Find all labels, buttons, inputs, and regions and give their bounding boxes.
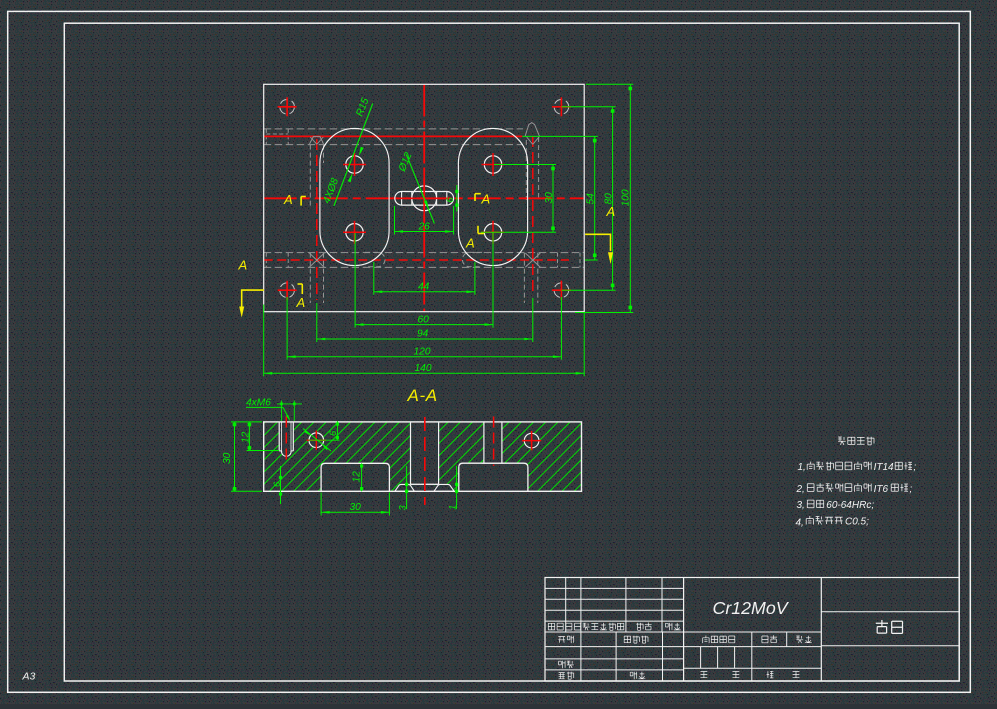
right cavity slot (stadium) bbox=[458, 128, 527, 265]
label shenhe bbox=[559, 661, 574, 668]
top channel plug left bbox=[265, 129, 267, 145]
svg-text:3,: 3, bbox=[797, 500, 805, 511]
svg-text:A3: A3 bbox=[22, 671, 36, 683]
svg-text:26: 26 bbox=[418, 221, 431, 232]
bottom cooling channel hidden line upper bbox=[264, 252, 585, 254]
dim 94 bbox=[316, 303, 318, 342]
divider 2 bbox=[820, 578, 822, 682]
svg-text:A: A bbox=[238, 258, 248, 273]
section red centerline right channel bbox=[493, 417, 495, 467]
sprue slot floor bbox=[411, 483, 439, 485]
dim 1 runner mesa right bbox=[456, 466, 458, 509]
drill point V below right dome bbox=[526, 137, 533, 145]
label shuliang bbox=[762, 635, 777, 643]
label genggai wenjianhao bbox=[583, 623, 624, 630]
center sprue slot obround bbox=[395, 192, 454, 206]
dim 140 bbox=[263, 305, 265, 377]
label gong bbox=[701, 672, 708, 678]
section step bracket right-middle bbox=[475, 193, 481, 195]
svg-text:6: 6 bbox=[272, 481, 282, 487]
channel crossing X right bbox=[525, 253, 540, 267]
dim 3 runner mesa left bbox=[406, 466, 408, 509]
right box rows bbox=[821, 611, 959, 613]
top channel centerline red bbox=[264, 135, 523, 137]
tech requirements title bbox=[838, 437, 874, 445]
label biaoji bbox=[548, 623, 563, 630]
label riqi2 bbox=[630, 672, 645, 679]
row line under marks row bbox=[545, 631, 821, 633]
small squares verticals bbox=[700, 647, 702, 669]
section arrow right bbox=[585, 234, 610, 251]
section: center sprue slot bbox=[411, 422, 439, 484]
section outline bbox=[264, 422, 582, 491]
section red centerline M6 bbox=[285, 417, 287, 462]
svg-text:30: 30 bbox=[544, 192, 555, 204]
side water hole hidden walls left bbox=[309, 145, 311, 208]
svg-text:12: 12 bbox=[351, 471, 362, 483]
section step bracket right-slot bbox=[477, 226, 479, 234]
dim 44 bbox=[373, 262, 375, 295]
row line left empty bbox=[545, 658, 684, 660]
section arrow left bbox=[242, 290, 264, 307]
bottom channel centerline red dashed bbox=[264, 259, 569, 261]
label riqi bbox=[666, 623, 681, 630]
dim 12 section M6 depth bbox=[247, 450, 280, 452]
part name xing qiang bbox=[876, 620, 903, 633]
svg-text:6: 6 bbox=[445, 197, 455, 202]
svg-text:IT6: IT6 bbox=[874, 484, 889, 495]
bottom channel plug left bbox=[265, 253, 267, 268]
svg-text:A-A: A-A bbox=[407, 386, 438, 405]
svg-text:A: A bbox=[465, 236, 475, 251]
leader D12 bbox=[406, 154, 434, 223]
svg-text:;: ; bbox=[909, 484, 912, 495]
section: water hole circle left bbox=[309, 433, 324, 448]
mid verticals right of divider1 bbox=[751, 632, 753, 681]
title block verticals lower rows bbox=[580, 632, 582, 681]
row line under shejy row bbox=[545, 646, 821, 648]
channel crossing dome right bbox=[525, 123, 539, 137]
svg-text:A: A bbox=[296, 295, 306, 310]
svg-text:30: 30 bbox=[222, 452, 233, 464]
section: right ejector channel from top bbox=[484, 422, 502, 463]
dim 60 bbox=[354, 233, 356, 328]
section step bracket left-middle bbox=[300, 197, 302, 206]
corner tapped hole M6 top-right bbox=[554, 100, 569, 115]
svg-text:1,: 1, bbox=[798, 462, 806, 473]
dim 30 vertical bbox=[494, 164, 556, 166]
side water hole centerline left (red dashed vertical) bbox=[316, 139, 318, 300]
svg-text:1: 1 bbox=[447, 505, 457, 510]
section: left pocket (cavity) bbox=[321, 463, 389, 491]
channel crossing X left bbox=[309, 253, 324, 267]
row line right small squares bottom bbox=[684, 667, 822, 669]
label qianzi bbox=[636, 623, 651, 631]
label bili bbox=[796, 636, 811, 643]
svg-text:54: 54 bbox=[585, 193, 596, 205]
svg-text:;: ; bbox=[913, 462, 916, 473]
corner tapped hole M6 bottom-left bbox=[280, 283, 295, 298]
svg-text:140: 140 bbox=[415, 363, 432, 374]
svg-text:94: 94 bbox=[417, 329, 429, 340]
dim 6 sprue tab bbox=[456, 185, 458, 212]
svg-text:4,: 4, bbox=[796, 518, 804, 529]
label biaozhunhua bbox=[624, 636, 648, 643]
top cooling channel hidden line lower bbox=[264, 144, 523, 146]
leader R15 and 4xD8 bbox=[334, 104, 373, 207]
label ye2 bbox=[793, 672, 800, 678]
section red centerline main bbox=[424, 417, 426, 505]
svg-text:60-64HRc;: 60-64HRc; bbox=[826, 500, 874, 511]
title block rows left section bbox=[545, 587, 684, 589]
section: M6 tapped hole left bbox=[279, 422, 293, 451]
sprue slot junction lines bbox=[401, 192, 403, 206]
svg-text:2,: 2, bbox=[796, 484, 805, 495]
svg-text:IT14: IT14 bbox=[874, 462, 894, 473]
dim 26 bbox=[394, 206, 396, 235]
sprue red centerline horizontal bbox=[397, 197, 451, 199]
sprue red centerline vertical bbox=[423, 174, 425, 224]
section: water hole circle right bbox=[524, 433, 539, 448]
dim 30 pocket width bbox=[320, 493, 322, 516]
label sheji bbox=[558, 636, 573, 643]
main horizontal centerline bbox=[264, 197, 585, 199]
top cooling channel hidden line upper bbox=[264, 128, 523, 130]
title block outer bbox=[545, 578, 959, 682]
svg-text:6: 6 bbox=[328, 430, 338, 436]
label di bbox=[767, 671, 774, 678]
dim 6 below M6 bbox=[280, 466, 282, 504]
svg-text:A: A bbox=[481, 192, 491, 207]
runner mesa right bbox=[434, 484, 454, 491]
dim 100 vertical bbox=[586, 83, 633, 85]
title block verticals top rows bbox=[565, 578, 567, 633]
svg-text:A: A bbox=[283, 192, 293, 207]
bottom channel rounded end piece left bbox=[365, 252, 385, 266]
svg-text:44: 44 bbox=[418, 281, 430, 292]
bottom cooling channel hidden line lower bbox=[264, 266, 585, 268]
label chushu bbox=[566, 623, 581, 630]
svg-text:30: 30 bbox=[350, 502, 362, 513]
svg-text:C0.5;: C0.5; bbox=[845, 517, 869, 528]
dim 30 section left bbox=[231, 421, 262, 423]
dim 12 pocket depth bbox=[361, 463, 363, 491]
row line above gongyi bbox=[545, 669, 684, 671]
svg-text:Cr12MoV: Cr12MoV bbox=[713, 598, 790, 618]
left cavity slot (stadium) bbox=[320, 128, 389, 265]
ejector hole left-top bbox=[346, 156, 363, 173]
dim 54 vertical bbox=[522, 135, 597, 137]
plate outline bbox=[264, 84, 585, 311]
corner tapped hole M6 top-left bbox=[280, 100, 295, 115]
svg-text:4xM6: 4xM6 bbox=[246, 397, 271, 408]
dia leader water hole bbox=[303, 429, 331, 452]
section: right pocket (cavity) bbox=[459, 463, 528, 491]
center sprue boss circle bbox=[412, 186, 437, 211]
runner mesa left bbox=[395, 484, 415, 491]
ejector hole right-bottom bbox=[484, 224, 501, 241]
label tuyang biaoji bbox=[703, 636, 735, 644]
svg-text:3: 3 bbox=[397, 505, 407, 511]
dim 120 bbox=[286, 297, 288, 360]
bottom channel plug right bbox=[557, 253, 559, 268]
ejector hole right-top bbox=[484, 156, 501, 173]
channel crossing dome left bbox=[310, 137, 324, 144]
side water hole hidden walls right bbox=[525, 140, 527, 200]
side water hole centerline right (red dashed vertical) bbox=[532, 136, 534, 295]
svg-text:A: A bbox=[606, 204, 616, 219]
dim 80 vertical bbox=[561, 106, 615, 108]
dim 6 water hole depth bbox=[336, 421, 338, 440]
corner tapped hole M6 bottom-right bbox=[554, 283, 569, 298]
bottom channel rounded end piece right bbox=[462, 252, 482, 266]
label gongyi bbox=[559, 672, 574, 679]
strip under sprue floor bbox=[414, 485, 434, 491]
M6 witness lines bbox=[281, 401, 283, 422]
section step bracket bottom-left bbox=[298, 283, 303, 285]
divider 1 bbox=[683, 578, 685, 682]
svg-text:120: 120 bbox=[414, 346, 431, 357]
ejector hole left-bottom bbox=[346, 224, 363, 241]
label ye bbox=[733, 672, 740, 678]
svg-text:12: 12 bbox=[241, 431, 252, 443]
svg-text:80: 80 bbox=[603, 193, 614, 205]
main vertical centerline bbox=[423, 85, 425, 312]
svg-text:100: 100 bbox=[620, 189, 631, 206]
svg-text:60: 60 bbox=[418, 314, 430, 325]
